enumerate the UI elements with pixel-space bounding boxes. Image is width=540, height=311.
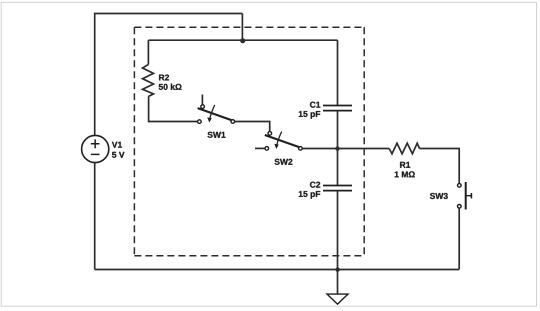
wire node C to ground [337, 270, 339, 295]
wire SW3 to bottom rail [458, 208, 460, 269]
ground [327, 294, 348, 304]
node A junction dot [240, 38, 245, 43]
wire V1 top to top-left corner and across [95, 14, 243, 136]
wire C1 to node B [337, 111, 339, 149]
capacitor C1 [299, 102, 352, 119]
bottom rail wire [95, 269, 459, 271]
switch SW3 [430, 182, 472, 210]
dashed enclosure [134, 27, 364, 256]
node C junction dot [335, 267, 339, 271]
wire inner top rail [148, 39, 337, 41]
wire SW1 to SW2 [235, 122, 270, 132]
resistor R2 [143, 64, 182, 96]
wire top drop to node A [241, 14, 243, 41]
resistor R1 [389, 143, 419, 177]
wire R1 to SW3 [420, 149, 460, 184]
voltage source V1 [82, 135, 125, 162]
wire V1 bottom to bottom rail [94, 162, 96, 269]
wire R2 top lead [147, 40, 149, 64]
wire R2 to SW1 [149, 96, 198, 121]
switch SW1 [198, 95, 235, 138]
wire node B to C2 [337, 149, 339, 186]
wire top rail down to C1 [337, 40, 339, 105]
wire node B to R1 [338, 148, 390, 150]
wire SW2 to node B [302, 148, 337, 150]
wire C2 to bottom rail [337, 191, 339, 270]
node B junction dot [335, 146, 339, 150]
switch SW2 [255, 132, 302, 165]
capacitor C2 [299, 182, 352, 199]
